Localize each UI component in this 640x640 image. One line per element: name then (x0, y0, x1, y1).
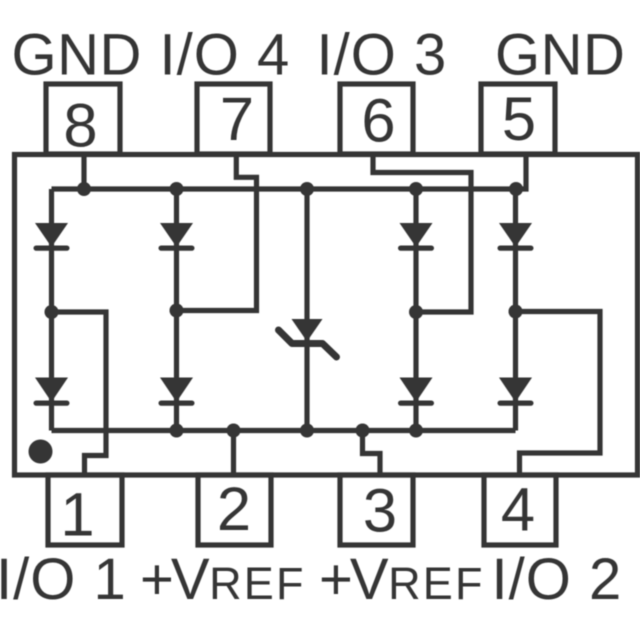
junction mid column 3 (409, 305, 423, 319)
junction top bus column 2 (170, 182, 184, 196)
wire column 3 (413, 189, 418, 431)
diode D4 top (499, 223, 532, 247)
svg-text:GND: GND (12, 23, 142, 88)
pin box 7 (197, 84, 270, 154)
junction bottom bus pin 2 (227, 424, 241, 438)
wire pin 1 to node between D1 D5 (52, 312, 107, 475)
pin box 1 (48, 475, 122, 545)
svg-text:5: 5 (502, 85, 536, 154)
diode D8 bottom (499, 378, 532, 403)
pin 1 marker dot (29, 440, 53, 464)
pin box 4 (484, 475, 556, 545)
wire VREF bus bottom (52, 428, 516, 433)
wire pin 6 to node between D3 D7 (373, 155, 471, 313)
svg-text:GND: GND (495, 23, 625, 88)
diode D3 top (400, 223, 433, 247)
wire column 4 (513, 189, 518, 431)
diode D2 top (160, 223, 193, 247)
wire pin 8 to GND bus (81, 155, 86, 190)
pin box 5 (481, 84, 555, 154)
diode D5 bottom (35, 378, 68, 403)
svg-text:I/O 3: I/O 3 (317, 23, 448, 88)
wire pin 4 to node between D4 D8 (516, 312, 601, 476)
junction mid column 2 (170, 304, 184, 318)
svg-text:4: 4 (501, 476, 535, 545)
junction top bus column 4 (509, 182, 523, 196)
svg-text:7: 7 (220, 85, 254, 154)
svg-text:3: 3 (363, 477, 397, 546)
diode D7 bottom (400, 378, 433, 403)
pin box 8 (46, 84, 120, 154)
diode D6 bottom (160, 378, 193, 403)
pin box 2 (198, 475, 271, 545)
svg-text:6: 6 (361, 87, 395, 156)
pin box 3 (340, 475, 413, 545)
zener diode Z1 (279, 319, 337, 357)
diode D1 top (35, 223, 68, 247)
wire zener column (304, 189, 309, 431)
junction mid column 1 (45, 305, 59, 319)
junction bottom bus pin 3 (356, 424, 370, 438)
wire GND bus top (52, 186, 517, 191)
pin box 6 (340, 84, 413, 154)
wire pin 3 to VREF bus (363, 431, 381, 476)
svg-text:1: 1 (60, 481, 94, 550)
wire pin 5 to GND bus (516, 155, 526, 190)
IC body outline (15, 155, 638, 476)
svg-text:I/O 1: I/O 1 (0, 547, 127, 612)
junction top bus zener (300, 182, 314, 196)
junction mid column 4 (509, 305, 523, 319)
wire pin 7 to node between D2 D6 (177, 155, 257, 311)
wire column 1 (49, 189, 54, 431)
junction bottom bus column 3 (409, 424, 423, 438)
junction bottom bus column 2 (170, 424, 184, 438)
svg-text:I/O 4: I/O 4 (160, 23, 291, 88)
wire pin 2 to VREF bus (231, 431, 236, 476)
svg-text:8: 8 (63, 92, 97, 161)
wire column 2 (174, 189, 179, 431)
junction top bus column 3 (409, 182, 423, 196)
svg-text:2: 2 (217, 475, 251, 544)
svg-text:I/O 2: I/O 2 (492, 547, 623, 612)
junction bottom bus zener (300, 424, 314, 438)
junction top bus at pin 8 (77, 182, 91, 196)
